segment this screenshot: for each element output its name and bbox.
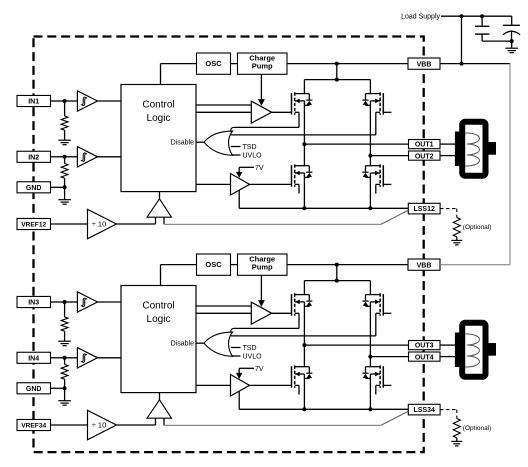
junction C2 bottom	[510, 39, 514, 43]
junction VBB feed	[335, 263, 339, 267]
junction sink left	[302, 407, 306, 411]
wire TSD input	[231, 347, 241, 349]
bottom gate driver	[231, 174, 250, 196]
control logic block	[121, 286, 196, 393]
sense feedback diagonal	[381, 210, 409, 224]
transistor Q1 (high side left)	[294, 92, 296, 115]
ground (GND pin)	[64, 187, 66, 199]
top gate driver	[251, 302, 271, 324]
svg-text:OSC: OSC	[205, 59, 222, 68]
pin box IN4	[17, 352, 51, 363]
pin box OUT4	[409, 352, 441, 361]
svg-text:Logic: Logic	[147, 113, 171, 124]
svg-text:Pump: Pump	[252, 262, 273, 271]
wire control logic to top driver (upper)	[196, 305, 251, 307]
pulldown resistor IN1	[64, 101, 66, 116]
wire IN4 to node	[51, 357, 65, 359]
node OUT4	[368, 355, 372, 359]
pulldown resistor IN4	[64, 358, 66, 365]
svg-text:TSD: TSD	[243, 345, 257, 352]
wire left column (Q1 to Q3)	[303, 101, 305, 166]
svg-text:Pump: Pump	[252, 61, 273, 70]
transistor Q3 (low side left)	[294, 365, 296, 388]
wire control logic to comparator	[159, 192, 161, 199]
control logic block	[121, 85, 196, 192]
svg-text:OSC: OSC	[205, 260, 222, 269]
wire Q4 gate stub	[383, 384, 391, 386]
junction VBB wire	[460, 62, 464, 66]
wire OUT3 to load	[440, 344, 456, 346]
pin box VBB	[408, 58, 440, 69]
wire TSD input	[231, 146, 241, 148]
optional sense resistor	[453, 218, 460, 237]
wire IN3 to node	[51, 301, 65, 303]
wire top driver to gate Q1	[272, 111, 292, 113]
wire charge pump to VBB	[287, 264, 408, 266]
dashed IC boundary box	[34, 37, 424, 453]
svg-text:IN4: IN4	[28, 355, 39, 362]
wire right column (VBB to Q2)	[369, 80, 371, 94]
wire node to buffer	[65, 357, 78, 359]
svg-text:Load Supply: Load Supply	[401, 14, 440, 21]
wire divider to comparator	[116, 223, 155, 225]
svg-text:÷ 10: ÷ 10	[92, 220, 107, 229]
comparator sense leg	[163, 217, 165, 224]
optional sense resistor	[453, 419, 460, 438]
svg-text:IN1: IN1	[28, 99, 39, 106]
wire control logic to comparator	[159, 393, 161, 400]
svg-text:OUT4: OUT4	[415, 354, 434, 361]
wire Q4 gate stub	[383, 183, 391, 185]
wire resistor to ground	[456, 438, 458, 442]
sense feedback diagonal	[381, 411, 409, 425]
wire control logic to top driver (lower)	[196, 111, 251, 113]
pin box LSS12	[408, 203, 440, 214]
bottom gate driver	[231, 375, 250, 397]
node OUT2	[368, 154, 372, 158]
wire control logic to top driver (upper)	[196, 104, 251, 106]
wire buffer IN4 to control logic	[98, 357, 122, 359]
wire charge pump to driver arrow	[260, 275, 262, 300]
current sense comparator	[147, 199, 172, 217]
node OUT3	[302, 343, 306, 347]
capacitor C1	[475, 25, 489, 27]
wire right column (Q2 to Q4)	[369, 101, 371, 166]
svg-text:(Optional): (Optional)	[463, 224, 492, 231]
schmitt buffer IN2	[77, 147, 97, 167]
sink rail	[239, 207, 408, 209]
wire buffer IN3 to control logic	[98, 301, 122, 303]
wire to capacitor C1	[481, 16, 483, 26]
wire VREF34 to divider	[51, 424, 88, 426]
junction bridge rail	[335, 279, 339, 283]
wire VBB to bridge rail	[336, 265, 338, 281]
wire GND pin to node	[51, 186, 65, 188]
charge pump block	[238, 254, 288, 275]
svg-text:VREF12: VREF12	[21, 222, 46, 229]
svg-text:7V: 7V	[255, 366, 264, 373]
schmitt buffer IN1	[77, 91, 97, 111]
wire left column (VBB to Q1)	[303, 80, 305, 94]
pin box IN2	[17, 151, 51, 162]
svg-text:OUT3: OUT3	[415, 343, 434, 350]
wire left column (Q3 to sink)	[303, 173, 305, 208]
svg-text:Logic: Logic	[147, 314, 171, 325]
svg-text:UVLO: UVLO	[243, 153, 263, 160]
transistor Q3 (low side left)	[294, 164, 296, 187]
junction on load supply line	[460, 14, 464, 18]
wire IN2 to node	[51, 156, 65, 158]
junction sink right	[368, 407, 372, 411]
wire left column (Q3 to sink)	[303, 374, 305, 409]
wire right column (VBB to Q2)	[369, 281, 371, 295]
svg-text:VREF34: VREF34	[21, 423, 46, 430]
wire left column (VBB to Q1)	[303, 281, 305, 295]
comparator ref leg	[155, 418, 157, 425]
wire control logic to OSC	[160, 64, 162, 85]
node IN1	[63, 99, 67, 103]
wire to capacitor C2	[511, 16, 513, 25]
wire node to buffer	[65, 301, 78, 303]
wire VREF12 to divider	[51, 223, 88, 225]
transistor Q4 (low side right)	[379, 164, 381, 187]
svg-text:(Optional): (Optional)	[463, 425, 492, 432]
pin box LSS34	[408, 404, 440, 415]
oscillator OSC	[197, 254, 231, 275]
node OUT1	[302, 142, 306, 146]
pin box IN1	[17, 95, 51, 106]
wire OUT3	[304, 344, 408, 346]
divide-by-10 amp VREF34	[88, 410, 117, 439]
wire C2 to ground	[511, 41, 513, 48]
disable OR gate	[204, 131, 233, 155]
transistor Q1 (high side left)	[294, 293, 296, 316]
svg-text:TSD: TSD	[243, 144, 257, 151]
wire OUT4 to load	[440, 356, 456, 358]
ground (IN3 resistor)	[58, 340, 71, 342]
sense feedback wire (gray)	[164, 223, 381, 225]
wire UVLO input	[232, 154, 241, 156]
ground (optional resistor)	[451, 440, 462, 442]
current sense comparator	[147, 400, 172, 418]
wire OUT1 to load	[440, 143, 456, 145]
pin box VREF12	[17, 218, 51, 229]
wire disable to gate	[196, 342, 204, 344]
wire C1 bottom to C2 bottom	[482, 40, 512, 42]
wire UVLO input	[232, 355, 241, 357]
wire right column (Q4 to sink)	[369, 173, 371, 208]
wire control logic to bottom driver	[196, 183, 231, 185]
wire left column (Q1 to Q3)	[303, 302, 305, 367]
wire control logic to top driver (lower)	[196, 312, 251, 314]
svg-text:UVLO: UVLO	[243, 354, 263, 361]
wire OSC to charge pump	[231, 264, 238, 266]
schmitt buffer IN3	[77, 292, 97, 312]
wire bottom driver to gate Q3	[250, 183, 292, 185]
ground (supply caps)	[505, 47, 518, 49]
transistor Q4 (low side right)	[379, 365, 381, 388]
wire right column (Q4 to sink)	[369, 374, 371, 409]
sense feedback wire (gray)	[164, 424, 381, 426]
wire VBB1 to right rail	[440, 63, 510, 65]
transistor Q2 (high side right)	[379, 293, 381, 316]
svg-text:GND: GND	[26, 386, 42, 393]
pin box OUT1	[409, 140, 441, 149]
svg-text:Disable: Disable	[171, 341, 194, 348]
svg-text:OUT1: OUT1	[415, 142, 434, 149]
svg-text:÷ 10: ÷ 10	[92, 421, 107, 430]
top gate driver	[251, 101, 271, 123]
wire Q2 gate stub	[383, 111, 391, 113]
ground (IN1 resistor)	[58, 139, 71, 141]
wire 7V to driver arrow	[239, 367, 254, 369]
wire OUT4	[370, 356, 408, 358]
pin box OUT3	[409, 341, 441, 350]
wire 7V to driver arrow	[239, 166, 254, 168]
wire Q1 source branch	[234, 327, 300, 329]
dashed wire to optional resistor	[440, 208, 457, 210]
node Load Supply wire	[441, 15, 512, 17]
wire OUT2	[370, 155, 408, 157]
wire right rail to VBB2 (gray)	[441, 264, 510, 266]
node IN2	[63, 155, 67, 159]
wire buffer IN2 to control logic	[98, 156, 122, 158]
ground (GND pin)	[64, 388, 66, 400]
bridge top rail	[304, 79, 370, 81]
wire charge pump to driver arrow	[260, 74, 262, 99]
wire driver to sink rail	[238, 190, 240, 208]
svg-text:OUT2: OUT2	[415, 153, 434, 160]
wire buffer IN1 to control logic	[98, 100, 122, 102]
wire IN1 to node	[51, 100, 65, 102]
svg-text:LSS12: LSS12	[413, 206, 435, 213]
wire load supply down to VBB	[461, 16, 463, 63]
svg-text:VBB: VBB	[417, 262, 432, 269]
divide-by-10 amp VREF12	[88, 209, 117, 238]
wire node to buffer	[65, 100, 78, 102]
dashed wire to optional resistor	[440, 409, 457, 411]
pin box OUT2	[409, 151, 441, 160]
svg-text:IN3: IN3	[28, 300, 39, 307]
svg-text:Control: Control	[142, 301, 174, 312]
disable OR gate	[204, 332, 233, 356]
junction bridge rail	[335, 78, 339, 82]
oscillator OSC	[197, 53, 231, 74]
junction capacitor C1 top	[480, 14, 484, 18]
svg-text:GND: GND	[26, 185, 42, 192]
wire control logic to bottom driver	[196, 384, 231, 386]
wire VBB to bridge rail	[336, 64, 338, 80]
svg-text:IN2: IN2	[28, 154, 39, 161]
pulldown resistor IN2	[64, 157, 66, 164]
wire top driver to gate Q1	[272, 312, 292, 314]
junction sink left	[302, 206, 306, 210]
pulldown resistor IN3	[64, 302, 66, 317]
wire resistor to ground	[456, 237, 458, 241]
wire Q1 source branch	[234, 126, 300, 128]
svg-text:LSS34: LSS34	[413, 407, 435, 414]
wire right rail (gray)	[509, 64, 511, 265]
svg-text:Control: Control	[142, 100, 174, 111]
wire GND pin to node	[51, 387, 65, 389]
pin box IN3	[17, 296, 51, 307]
node GND	[63, 386, 67, 390]
wire driver to sink rail	[238, 391, 240, 409]
comparator ref leg	[155, 217, 157, 224]
node GND	[63, 185, 67, 189]
wire right column (Q2 to Q4)	[369, 302, 371, 367]
svg-text:Disable: Disable	[171, 140, 194, 147]
wire charge pump to VBB	[287, 63, 408, 65]
pin box GND	[17, 383, 51, 394]
ground (optional resistor)	[451, 239, 462, 241]
wire Q2 source branch	[231, 335, 376, 337]
comparator sense leg	[163, 418, 165, 425]
node IN3	[63, 300, 67, 304]
schmitt buffer IN4	[77, 348, 97, 368]
pin box VBB	[408, 259, 440, 270]
wire bottom driver to gate Q3	[250, 384, 292, 386]
svg-text:7V: 7V	[255, 165, 264, 172]
capacitor C2 (polarized)	[503, 24, 520, 26]
node IN4	[63, 356, 67, 360]
junction VBB feed	[335, 62, 339, 66]
wire disable to gate	[196, 141, 204, 143]
wire OUT2 to load	[440, 155, 456, 157]
charge pump block	[238, 53, 288, 74]
wire divider to comparator	[116, 424, 155, 426]
wire node to buffer	[65, 156, 78, 158]
transistor Q2 (high side right)	[379, 92, 381, 115]
wire OUT1	[304, 143, 408, 145]
sink rail	[239, 408, 408, 410]
pin box VREF34	[17, 419, 51, 430]
wire Q2 source branch	[231, 134, 376, 136]
wire OSC to charge pump	[231, 63, 238, 65]
motor load winding	[462, 323, 485, 377]
wire control logic to OSC	[160, 265, 162, 286]
junction sink right	[368, 206, 372, 210]
pin box GND	[17, 182, 51, 193]
motor load winding	[462, 122, 485, 176]
bridge top rail	[304, 280, 370, 282]
wire Q2 gate stub	[383, 312, 391, 314]
svg-text:VBB: VBB	[417, 61, 432, 68]
